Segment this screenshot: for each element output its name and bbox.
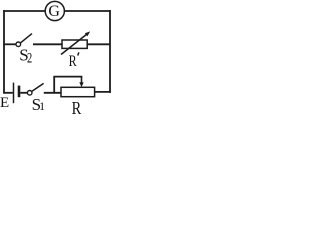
switch S1 blade: [32, 83, 44, 91]
svg-text:E: E: [0, 95, 9, 111]
galvanometer G (circle): [45, 1, 64, 20]
wire: middle row from S2 to R': [33, 43, 63, 45]
battery E long plate: [13, 83, 15, 104]
wire: top rail left segment: [3, 10, 45, 12]
switch S2 blade: [20, 34, 32, 43]
switch S2 pivot circle: [16, 42, 21, 47]
svg-text:2: 2: [27, 50, 32, 66]
wire: left rail: [3, 10, 5, 94]
wire: resistor R to right rail: [95, 91, 111, 93]
wire: slider branch horizontal: [53, 76, 82, 78]
wire: S1 to resistor R: [44, 92, 62, 94]
rheostat R' body: [62, 40, 87, 48]
wire: slider branch vertical at junction: [53, 77, 55, 93]
wire: bottom from left rail to battery: [3, 92, 13, 94]
wire: battery to S1: [20, 92, 27, 94]
svg-text:R: R: [72, 98, 82, 118]
battery E short plate: [18, 86, 21, 98]
wire: middle row from left rail to S2: [3, 43, 16, 45]
svg-text:R: R: [69, 53, 77, 70]
wire: slider arrow down onto R: [81, 76, 83, 84]
wire: top rail right segment: [64, 10, 110, 12]
switch S1 pivot circle: [27, 91, 32, 96]
svg-text:1: 1: [39, 101, 45, 113]
resistor R body: [61, 87, 95, 96]
rheostat R' arrow (diagonal): [61, 34, 88, 55]
wire: middle row from R' to right rail: [87, 43, 110, 45]
wire: right rail: [109, 10, 111, 93]
svg-text:G: G: [48, 3, 60, 20]
